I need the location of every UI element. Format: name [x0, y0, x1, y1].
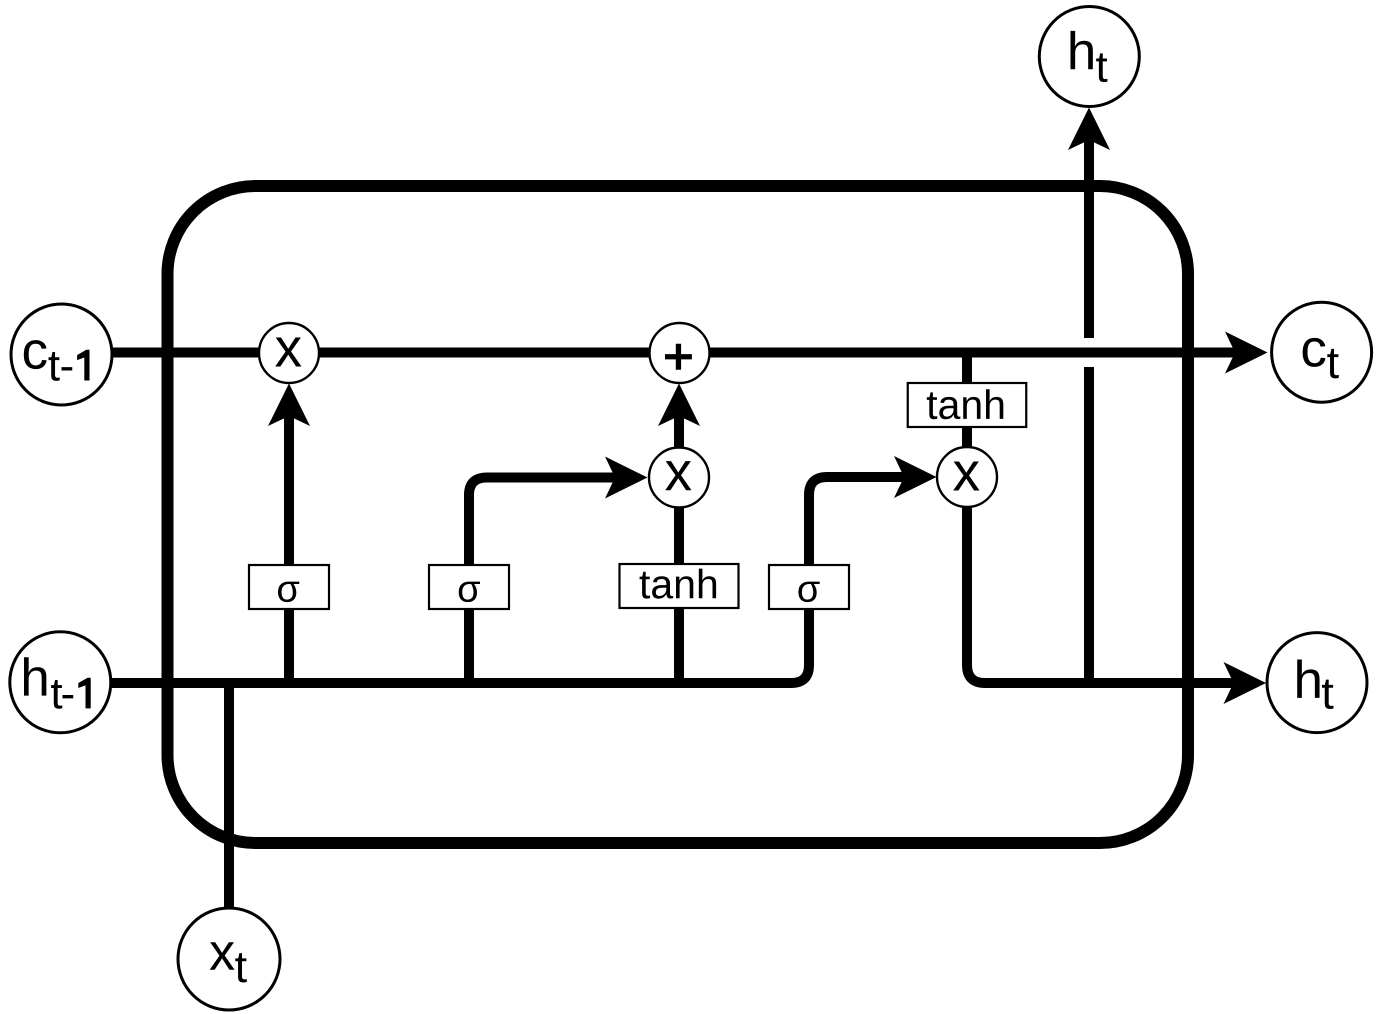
- arrowhead into node h_t top: [1068, 108, 1110, 151]
- label x of X3: [953, 461, 979, 490]
- op circle plus (add): [650, 323, 710, 383]
- wire: x_t up to h line: [224, 683, 234, 908]
- arrowhead into op X3: [894, 456, 937, 498]
- label x of X2: [665, 461, 691, 490]
- wire: c line branch down through tanh-right to X3: [962, 353, 972, 449]
- wire: sigma1 branch up to X1: [284, 409, 294, 683]
- op circle X2 (multiply): [649, 448, 709, 508]
- wire: sigma2 branch up and right to X2: [469, 478, 622, 684]
- label h_t top: [1071, 31, 1108, 82]
- node circle c_t-1: [11, 304, 112, 405]
- arrowhead into node c_t: [1225, 332, 1268, 374]
- arrowhead into node h_t right: [1224, 662, 1267, 704]
- label h_t-1: [24, 657, 91, 709]
- wire: vertical to h_t top, segment above c-line gap: [1084, 133, 1094, 338]
- node circle h_t-1: [10, 632, 111, 733]
- wire: X3 output down and right to h_t right: [967, 507, 1240, 683]
- label plus sign: [665, 344, 692, 370]
- label h_t right: [1297, 660, 1333, 710]
- node circle h_t top: [1039, 7, 1139, 107]
- wire: h_t-1 line with corner up to sigma3 and across toward X3: [110, 477, 911, 683]
- label x of X1: [275, 337, 301, 366]
- gate box sigma1: [249, 565, 329, 609]
- wire: tanh-mid branch up to X2: [674, 508, 684, 683]
- gate box sigma3: [769, 565, 849, 609]
- label c_t: [1303, 338, 1339, 378]
- label x_t: [210, 942, 247, 982]
- label sigma2: [459, 582, 480, 602]
- node circle c_t: [1272, 302, 1372, 402]
- LSTM cell body (rounded rectangle): [168, 186, 1189, 843]
- wire: vertical to h_t top, segment below c-line gap: [1084, 367, 1094, 683]
- label c_t-1: [24, 340, 90, 381]
- op circle X1 (multiply): [259, 323, 319, 383]
- wire: X2 up to plus: [674, 409, 684, 448]
- node circle h_t right: [1267, 633, 1367, 733]
- arrowhead into op X1: [268, 384, 310, 427]
- label tanh right: [927, 389, 1004, 419]
- gate box sigma2: [429, 565, 509, 609]
- wire: cell-state line from c_t-1 to c_t: [112, 348, 1242, 358]
- op circle X3 (multiply): [937, 447, 997, 507]
- gate box tanh right: [908, 383, 1027, 427]
- gate box tanh mid: [620, 564, 739, 608]
- arrowhead into op X2: [605, 457, 648, 499]
- arrowhead into op plus: [658, 384, 700, 427]
- node circle x_t: [178, 908, 280, 1010]
- label sigma3: [798, 582, 819, 602]
- label tanh mid: [640, 569, 717, 599]
- label sigma1: [278, 582, 299, 602]
